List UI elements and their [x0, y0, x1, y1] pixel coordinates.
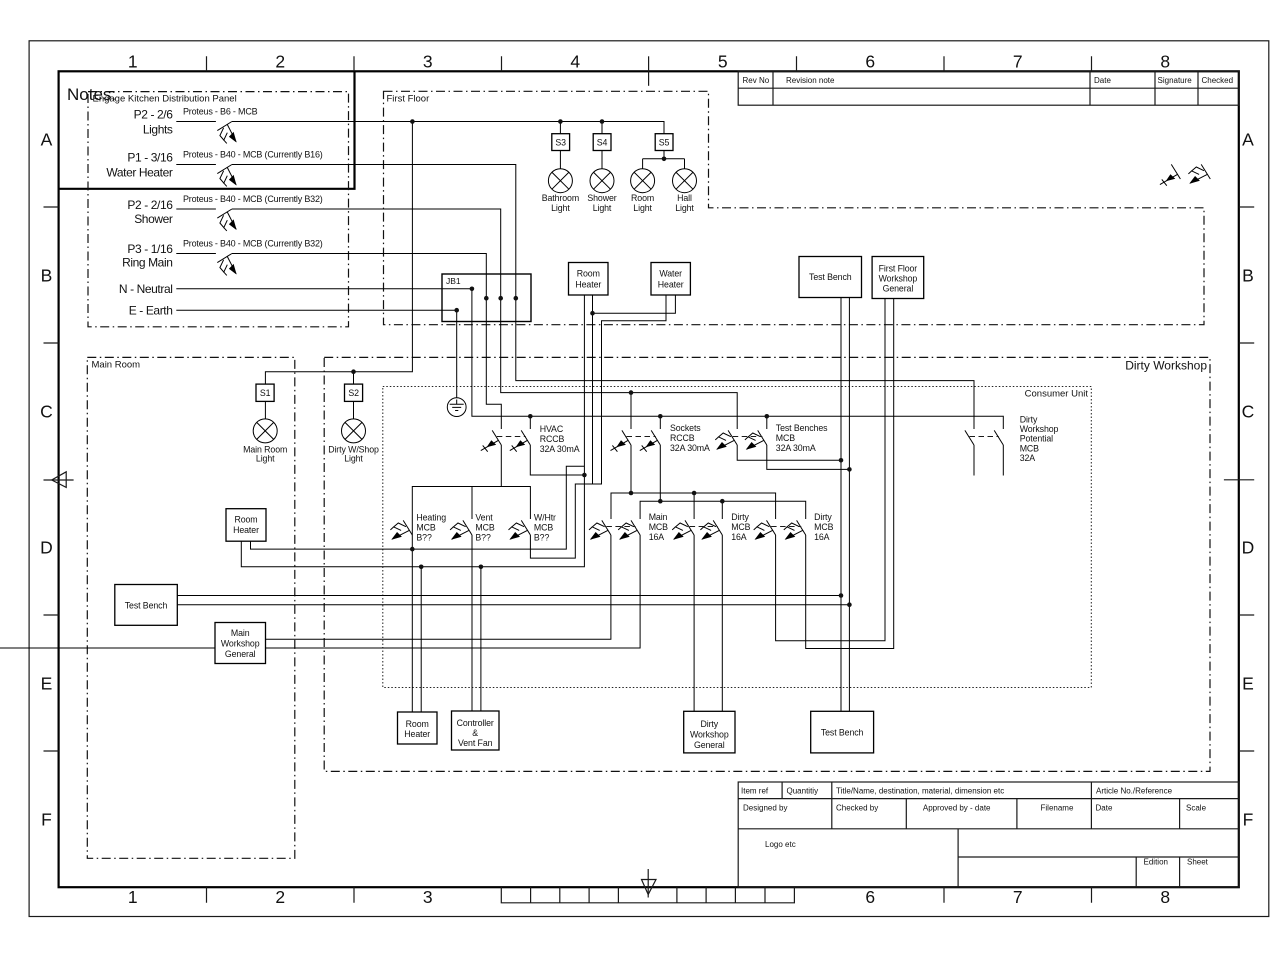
- breaker: test benches MCB pole N: [745, 430, 767, 449]
- box: main workshop general: [215, 623, 266, 664]
- svg-text:Engage Kitchen Distribution Pa: Engage Kitchen Distribution Panel: [93, 94, 237, 105]
- svg-text:Hall: Hall: [677, 193, 692, 203]
- wire: branch room heater D right: [251, 466, 585, 549]
- box: left test bench: [115, 585, 178, 626]
- node: bus HVAC-N: [528, 414, 533, 419]
- wire: HVAC left output to MCB feeder: [500, 445, 502, 487]
- column numbers top: [128, 52, 1170, 72]
- breaker: main MCB pole N: [618, 520, 640, 539]
- breaker: HVAC RCCB pole L: [481, 430, 502, 451]
- svg-text:16A: 16A: [731, 532, 747, 542]
- svg-text:S3: S3: [555, 137, 566, 147]
- lamp: shower light: [590, 169, 614, 193]
- svg-text:Rev No: Rev No: [743, 76, 770, 85]
- spare MCB pole symbol: [1188, 164, 1210, 183]
- wire: HVAC right output: [530, 445, 584, 475]
- left centre marker: [44, 479, 74, 481]
- wire: MCB feeder rail: [412, 487, 530, 520]
- svg-text:P1 - 3/16: P1 - 3/16: [127, 151, 173, 165]
- wire: main MCB right output stray to left edge: [0, 535, 640, 648]
- node: R2 sockets out: [658, 499, 663, 504]
- breaker: dirty workshop potential pole N: [994, 430, 1003, 445]
- node: bus sockets-N: [658, 414, 663, 419]
- svg-text:8: 8: [1160, 52, 1170, 72]
- breaker: dirty MCB 1 pole N: [700, 520, 722, 539]
- svg-text:First Floor: First Floor: [879, 264, 918, 274]
- wire: water heater net: [232, 165, 974, 430]
- node: R2 dirty1 stub: [720, 499, 725, 504]
- column numbers bottom: [128, 887, 1170, 907]
- svg-text:Room: Room: [234, 514, 257, 524]
- switch S5: [655, 134, 673, 151]
- switch S4: [593, 134, 611, 151]
- svg-text:Proteus - B40 - MCB (Currently: Proteus - B40 - MCB (Currently B16): [183, 150, 323, 160]
- wire: S1 to lamp: [264, 401, 266, 419]
- node: R1 sockets out: [629, 491, 634, 496]
- wire: lights net: [232, 122, 664, 134]
- notes box: [59, 71, 355, 189]
- svg-text:General: General: [694, 740, 725, 750]
- svg-text:Light: Light: [675, 203, 694, 213]
- node: bus TB-N: [765, 414, 770, 419]
- wire: FFWG right riser: [806, 299, 894, 649]
- node: JB1 water heater: [514, 296, 519, 301]
- node: vent fan tap: [479, 565, 484, 570]
- svg-text:Heater: Heater: [404, 729, 430, 739]
- svg-text:2: 2: [275, 887, 285, 907]
- svg-text:Workshop: Workshop: [1020, 424, 1059, 434]
- node: S5 split: [662, 157, 667, 162]
- node: earth corner: [454, 308, 459, 313]
- svg-text:Shower: Shower: [587, 193, 616, 203]
- switch S2: [345, 384, 363, 401]
- node: TB riser right upper: [847, 467, 852, 472]
- node: JB1 ring main: [484, 296, 489, 301]
- row ticks right: [1239, 207, 1254, 751]
- svg-text:S4: S4: [597, 137, 608, 147]
- svg-text:MCB: MCB: [776, 433, 795, 443]
- breaker: main MCB pole L: [589, 520, 611, 539]
- svg-text:Checked: Checked: [1202, 76, 1234, 85]
- svg-text:General: General: [883, 283, 914, 293]
- svg-text:Shower: Shower: [134, 212, 173, 226]
- wire: rail R2: [640, 501, 806, 519]
- svg-text:A: A: [41, 130, 53, 150]
- node: W1 sockets-L: [629, 390, 634, 395]
- bottom ruler strip: [501, 887, 794, 903]
- svg-text:B: B: [1242, 266, 1254, 286]
- svg-text:Heater: Heater: [658, 280, 684, 290]
- box: FF water heater: [651, 263, 690, 296]
- box: FF test bench: [799, 257, 862, 298]
- svg-text:Test Bench: Test Bench: [809, 272, 852, 282]
- svg-text:Room: Room: [631, 193, 654, 203]
- svg-text:Main: Main: [649, 512, 668, 522]
- svg-text:Dirty: Dirty: [814, 512, 832, 522]
- svg-text:Proteus - B40 - MCB (Currently: Proteus - B40 - MCB (Currently B32): [183, 239, 323, 249]
- svg-text:B??: B??: [534, 532, 550, 542]
- box: dirty workshop general: [684, 711, 735, 753]
- svg-text:A: A: [1242, 130, 1254, 150]
- link: test benches pair: [733, 436, 763, 438]
- wire: left test bench feeds: [177, 596, 849, 605]
- wire: S2 to lamp: [353, 401, 355, 419]
- breaker: test benches MCB pole L: [715, 430, 737, 449]
- svg-text:Dirty: Dirty: [1020, 415, 1038, 425]
- node: TB riser left upper: [839, 458, 844, 463]
- svg-text:Heating: Heating: [416, 513, 446, 523]
- svg-text:MCB: MCB: [1020, 443, 1039, 453]
- svg-text:2: 2: [275, 52, 285, 72]
- svg-text:Main Room: Main Room: [92, 360, 141, 371]
- wire: earth net: [176, 310, 456, 398]
- svg-text:Room: Room: [577, 269, 600, 279]
- node: bottom room heater tap: [419, 565, 424, 570]
- svg-text:Vent Fan: Vent Fan: [458, 738, 493, 748]
- svg-text:1: 1: [128, 52, 138, 72]
- box: FF workshop general: [872, 257, 924, 299]
- svg-text:32A 30mA: 32A 30mA: [776, 443, 816, 453]
- svg-text:Test Benches: Test Benches: [776, 423, 828, 433]
- svg-text:Dirty: Dirty: [701, 719, 719, 729]
- svg-text:Vent: Vent: [475, 513, 493, 523]
- svg-text:C: C: [1242, 402, 1255, 422]
- svg-text:Approved by - date: Approved by - date: [923, 804, 991, 813]
- svg-text:Quantitiy: Quantitiy: [787, 787, 819, 796]
- wire: shower row left stub: [176, 208, 216, 210]
- link: dirty MCB2 pair: [771, 526, 801, 528]
- wire: test benches right pole stub: [766, 416, 768, 429]
- wire: rail R1 dirty1 stub: [693, 493, 695, 519]
- svg-text:MCB: MCB: [475, 523, 494, 533]
- svg-text:B??: B??: [475, 532, 491, 542]
- svg-text:Proteus - B40 - MCB (Currently: Proteus - B40 - MCB (Currently B32): [183, 194, 323, 204]
- box: controller and vent fan: [452, 711, 500, 750]
- breaker: sockets RCCB pole N: [640, 430, 661, 451]
- wire: ring main row left stub: [176, 253, 216, 255]
- wire: vent MCB stub: [471, 487, 473, 520]
- right centre marker: [1224, 479, 1254, 481]
- svg-text:First Floor: First Floor: [387, 94, 430, 105]
- inner border frame: [59, 71, 1239, 887]
- breaker: kitchen lights MCB: [217, 122, 236, 144]
- wire: S5 split to room/hall lamps: [643, 151, 685, 169]
- svg-text:Light: Light: [633, 203, 652, 213]
- svg-text:Item ref: Item ref: [741, 787, 769, 796]
- svg-text:Test Bench: Test Bench: [821, 728, 864, 738]
- wire: vent MCB output: [471, 535, 473, 711]
- svg-text:Sockets: Sockets: [670, 423, 701, 433]
- node: HVAC-R output join: [582, 473, 587, 478]
- consumer unit dotted box: [383, 387, 1092, 688]
- svg-text:Consumer Unit: Consumer Unit: [1025, 389, 1089, 400]
- wire: water heater row left stub: [176, 164, 216, 166]
- svg-text:Revision note: Revision note: [786, 76, 835, 85]
- node: R1 dirty1 stub: [692, 491, 697, 496]
- svg-text:Scale: Scale: [1186, 804, 1207, 813]
- svg-text:32A: 32A: [1020, 453, 1036, 463]
- lamp: dirty w/shop light: [342, 419, 366, 443]
- row letters left: [40, 130, 53, 830]
- svg-text:HVAC: HVAC: [540, 424, 564, 434]
- svg-text:6: 6: [865, 887, 875, 907]
- link: dirty potential pair: [970, 436, 999, 438]
- svg-text:4: 4: [570, 52, 580, 72]
- svg-text:General: General: [225, 649, 256, 659]
- svg-text:Controller: Controller: [457, 718, 494, 728]
- column ticks bottom: [207, 887, 1092, 903]
- node: neutral corner: [470, 287, 475, 292]
- svg-text:Workshop: Workshop: [690, 729, 729, 739]
- lamp: main room light: [253, 419, 277, 443]
- wire: sockets right pole stub: [659, 416, 661, 429]
- svg-text:3: 3: [423, 52, 433, 72]
- earth symbol: [447, 398, 466, 417]
- svg-text:Filename: Filename: [1041, 804, 1074, 813]
- spare RCCB pole symbol: [1160, 164, 1181, 185]
- breaker: sockets RCCB pole L: [611, 430, 632, 451]
- svg-text:MCB: MCB: [814, 522, 833, 532]
- lamp: bathroom light: [548, 169, 572, 193]
- svg-text:B: B: [41, 266, 53, 286]
- breaker: heating MCB: [390, 520, 412, 539]
- wire: rail R1: [611, 493, 776, 519]
- svg-text:P2 - 2/6: P2 - 2/6: [134, 108, 174, 122]
- svg-text:Bathroom: Bathroom: [542, 193, 579, 203]
- svg-text:RCCB: RCCB: [540, 434, 565, 444]
- svg-text:Heater: Heater: [575, 280, 601, 290]
- svg-text:32A 30mA: 32A 30mA: [540, 444, 580, 454]
- svg-text:32A 30mA: 32A 30mA: [670, 443, 710, 453]
- node: JB1 shower: [498, 296, 503, 301]
- breaker: vent MCB: [450, 520, 472, 539]
- svg-text:Date: Date: [1096, 804, 1113, 813]
- svg-text:Proteus - B6 - MCB: Proteus - B6 - MCB: [183, 107, 258, 117]
- node: TB riser left lower: [839, 593, 844, 598]
- svg-text:Light: Light: [256, 453, 275, 463]
- wire: lights row left stub: [176, 121, 216, 123]
- svg-text:8: 8: [1160, 887, 1170, 907]
- row letters right: [1242, 130, 1255, 830]
- svg-text:Room: Room: [406, 719, 429, 729]
- breaker: HVAC RCCB pole N: [510, 430, 531, 451]
- svg-text:F: F: [1243, 810, 1254, 830]
- bottom centre marker: [647, 869, 649, 898]
- wire: bottom room heater right feed: [420, 567, 422, 712]
- svg-text:Water Heater: Water Heater: [106, 165, 173, 179]
- svg-text:D: D: [1242, 538, 1255, 558]
- svg-text:&: &: [472, 728, 478, 738]
- breaker: kitchen shower MCB: [217, 209, 236, 231]
- row ticks left: [44, 207, 59, 751]
- svg-text:N - Neutral: N - Neutral: [119, 282, 173, 296]
- link: HVAC pair: [497, 436, 526, 438]
- svg-text:F: F: [41, 810, 52, 830]
- svg-text:Workshop: Workshop: [879, 273, 918, 283]
- wire: S3 to bathroom lamp: [559, 151, 561, 169]
- wire: dirty1 outputs to DWG box: [694, 535, 722, 711]
- breaker: kitchen ring main MCB: [217, 254, 236, 276]
- wire: neutral net: [176, 289, 1003, 429]
- svg-text:7: 7: [1013, 52, 1023, 72]
- box: FF room heater: [569, 263, 609, 296]
- svg-text:Water: Water: [659, 269, 682, 279]
- svg-text:Signature: Signature: [1158, 76, 1193, 85]
- switch S1: [256, 384, 274, 401]
- lamp: room light: [631, 169, 655, 193]
- breaker: kitchen water heater MCB: [217, 165, 236, 187]
- top centre marker: [648, 56, 650, 86]
- svg-text:Article No./Reference: Article No./Reference: [1096, 787, 1173, 796]
- first floor dash-dot region: [384, 91, 1205, 324]
- svg-text:Title/Name, destination, mater: Title/Name, destination, material, dimen…: [836, 787, 1004, 796]
- breaker: dirty workshop potential pole L: [965, 430, 974, 445]
- breaker: W/Htr MCB: [509, 520, 531, 539]
- svg-text:Light: Light: [593, 203, 612, 213]
- node: S3 tap: [558, 119, 563, 124]
- wire: FF room heater right + water heater right: [593, 295, 676, 484]
- dirty workshop dash-dot box: [324, 357, 1210, 771]
- main room dash-dot box: [87, 357, 294, 858]
- wire: sockets outputs to rails: [631, 445, 660, 501]
- switch S3: [552, 134, 570, 151]
- node: heating output tap: [410, 547, 415, 552]
- wire: main MCB left output to MWG: [266, 535, 611, 639]
- svg-text:S2: S2: [348, 388, 359, 398]
- svg-text:7: 7: [1013, 887, 1023, 907]
- svg-text:6: 6: [865, 52, 875, 72]
- link: main MCB pair: [606, 526, 635, 528]
- wire: FF room heater left drop into CU: [241, 295, 584, 567]
- node: S2 tap: [351, 369, 356, 374]
- wire: S2 stub: [353, 372, 355, 384]
- wire: S3 stub: [559, 122, 561, 134]
- svg-text:Test Bench: Test Bench: [125, 600, 168, 610]
- svg-text:Lights: Lights: [143, 122, 173, 136]
- node: S4 tap: [600, 119, 605, 124]
- svg-text:16A: 16A: [649, 532, 665, 542]
- svg-text:S5: S5: [659, 137, 670, 147]
- column ticks top: [207, 56, 1092, 71]
- svg-text:W/Htr: W/Htr: [534, 513, 556, 523]
- wire: dirty potential dangling outputs: [974, 445, 1003, 476]
- wire: S4 to shower lamp: [601, 151, 603, 169]
- svg-text:Edition: Edition: [1144, 858, 1168, 867]
- node: heater right join: [590, 311, 595, 316]
- svg-text:16A: 16A: [814, 532, 830, 542]
- wire: HVAC right pole stub: [529, 416, 531, 429]
- wire: shower net: [232, 209, 737, 429]
- svg-text:Ring Main: Ring Main: [122, 256, 172, 270]
- svg-text:E - Earth: E - Earth: [129, 304, 173, 318]
- box: room heater (main room): [226, 509, 266, 542]
- node: TB riser right lower: [847, 602, 852, 607]
- lamp: hall light: [673, 169, 697, 193]
- wire: lights riser to S1/S2: [265, 122, 412, 385]
- svg-text:E: E: [41, 674, 53, 694]
- wire: rail R2 dirty1 stub: [721, 501, 723, 519]
- wire: heating MCB output to bottom room heater: [411, 519, 413, 712]
- kitchen panel dash-dot box: [88, 92, 349, 327]
- svg-text:D: D: [40, 538, 53, 558]
- svg-text:C: C: [40, 402, 53, 422]
- breaker: dirty MCB 2 pole L: [754, 520, 776, 539]
- svg-text:MCB: MCB: [534, 523, 553, 533]
- svg-text:MCB: MCB: [649, 522, 668, 532]
- svg-text:Heater: Heater: [233, 525, 259, 535]
- wire: controller vent fan right feed: [480, 567, 482, 712]
- svg-text:Designed by: Designed by: [743, 804, 787, 813]
- svg-text:MCB: MCB: [416, 523, 435, 533]
- link: sockets pair: [627, 436, 656, 438]
- svg-text:Light: Light: [551, 203, 570, 213]
- svg-text:Logo etc: Logo etc: [765, 840, 796, 849]
- svg-text:3: 3: [423, 887, 433, 907]
- breaker: dirty MCB 1 pole L: [672, 520, 694, 539]
- svg-text:MCB: MCB: [731, 522, 750, 532]
- wire: S4 stub: [601, 122, 603, 134]
- wire: ring main net: [232, 254, 501, 430]
- svg-text:Checked by: Checked by: [836, 804, 878, 813]
- breaker: dirty MCB 2 pole N: [784, 520, 806, 539]
- svg-text:Date: Date: [1094, 76, 1111, 85]
- wire: FFWG left riser: [776, 299, 885, 641]
- svg-text:1: 1: [128, 887, 138, 907]
- svg-text:5: 5: [718, 52, 728, 72]
- box: bottom test bench: [811, 711, 874, 753]
- node: lights riser tap: [410, 119, 415, 124]
- svg-text:Light: Light: [344, 453, 363, 463]
- svg-text:B??: B??: [416, 532, 432, 542]
- wire: sockets left pole stub: [630, 393, 632, 429]
- wire: FF test bench risers: [841, 298, 849, 712]
- svg-text:Dirty Workshop: Dirty Workshop: [1125, 359, 1207, 373]
- svg-text:S1: S1: [260, 388, 271, 398]
- svg-text:Main: Main: [231, 628, 250, 638]
- svg-text:Dirty: Dirty: [731, 512, 749, 522]
- svg-text:P3 - 1/16: P3 - 1/16: [127, 242, 173, 256]
- svg-text:JB1: JB1: [446, 276, 461, 286]
- wire: test benches outputs: [737, 445, 849, 469]
- svg-text:RCCB: RCCB: [670, 433, 695, 443]
- svg-text:Potential: Potential: [1020, 434, 1053, 444]
- link: dirty MCB1 pair: [690, 526, 718, 528]
- box: bottom room heater: [398, 712, 438, 744]
- svg-text:P2 - 2/16: P2 - 2/16: [127, 198, 173, 212]
- svg-text:E: E: [1242, 674, 1254, 694]
- wire: water heater left to W/Htr MCB: [530, 295, 666, 558]
- svg-text:Sheet: Sheet: [1187, 858, 1209, 867]
- svg-text:Workshop: Workshop: [221, 638, 260, 648]
